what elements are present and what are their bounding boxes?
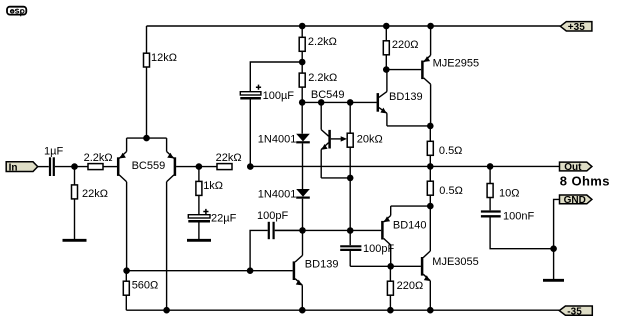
node 20k top junction (347, 99, 354, 106)
node feedback 1k junction (196, 163, 203, 170)
tag GND (560, 195, 592, 206)
ground 22uF (187, 239, 211, 242)
svg-text:BD139: BD139 (389, 91, 423, 103)
svg-text:BC559: BC559 (132, 160, 166, 172)
svg-text:0.5Ω: 0.5Ω (439, 185, 463, 197)
svg-text:0.5Ω: 0.5Ω (439, 145, 463, 157)
svg-text:-35: -35 (567, 306, 582, 317)
wire 560 bottom lead (125, 295, 127, 310)
node MJE2955 emitter rail (427, 23, 434, 30)
node BC549 collector junction (318, 99, 325, 106)
svg-text:MJE3055: MJE3055 (432, 256, 478, 268)
wire 22uF to ground (198, 222, 200, 239)
node VAS top left (299, 99, 306, 106)
svg-text:20kΩ: 20kΩ (357, 133, 383, 145)
node 220 upper rail (383, 23, 390, 30)
wire 100pF first right (275, 229, 303, 231)
svg-text:560Ω: 560Ω (132, 280, 159, 292)
resistor 12k (144, 53, 150, 67)
wire 2.2k first top lead (301, 26, 303, 37)
transistor Q8 MJE3055 (422, 206, 430, 310)
svg-text:220Ω: 220Ω (392, 39, 419, 51)
wire output line (250, 165, 559, 167)
wire 220 upper top lead (385, 26, 387, 41)
node zobel junction (487, 163, 494, 170)
diode D1 1N4001 (296, 134, 310, 143)
node driver output junction (427, 123, 434, 130)
wire Q2 base to feedback node (176, 166, 217, 168)
wire 0.5 upper bottom (429, 155, 431, 166)
svg-text:100µF: 100µF (263, 90, 295, 102)
svg-text:100pF: 100pF (257, 210, 288, 222)
wire +35 rail (147, 25, 561, 27)
wire 1uF to base 2.2k (55, 166, 88, 168)
transistor Q5 MJE2955 (422, 26, 430, 126)
resistor 22k input (72, 185, 78, 199)
svg-text:BD139: BD139 (305, 259, 339, 271)
node VAS emitter rail (299, 307, 306, 314)
transistor Q1 BC559 left (118, 138, 126, 271)
wire ground stub (553, 249, 555, 279)
capacitor 100nF (481, 212, 501, 217)
node 0.5 lower MJE3055 junction (427, 203, 434, 210)
resistor 22k feedback (217, 164, 232, 170)
resistor 2.2k second (299, 73, 305, 87)
svg-text:+35: +35 (568, 22, 585, 33)
transistor Q3 BC549 (321, 102, 350, 177)
wire MJE2955 base (386, 69, 421, 71)
node 20k emitter junction (347, 175, 354, 182)
wire 20k top lead (349, 102, 351, 133)
svg-text:MJE2955: MJE2955 (433, 57, 479, 69)
wire VAS base line (127, 270, 293, 272)
wire 20k bottom lead (349, 147, 351, 230)
wire emitter bus (127, 137, 167, 139)
resistor 220 lower (387, 281, 393, 295)
svg-text:Out: Out (564, 162, 582, 173)
wire 100pF first left (250, 230, 268, 270)
transistor Q6 BD140 (382, 206, 430, 266)
transistor Q2 BC559 right (167, 138, 175, 310)
svg-text:22kΩ: 22kΩ (82, 188, 108, 200)
svg-text:10Ω: 10Ω (499, 188, 519, 200)
svg-text:BC549: BC549 (311, 89, 345, 101)
svg-text:22µF: 22µF (211, 212, 237, 224)
node Q2 collector rail (163, 307, 170, 314)
wire 2.2k second bottom (301, 87, 303, 134)
esp logo (7, 7, 26, 17)
capacitor 100pF first (269, 222, 274, 239)
resistor 0.5 lower (427, 181, 433, 195)
wire VAS top line (302, 101, 376, 103)
svg-text:1kΩ: 1kΩ (203, 180, 223, 192)
resistor 220 upper (383, 41, 389, 55)
wire 560 top lead (125, 271, 127, 282)
wire GND tag to ground node (554, 199, 560, 248)
wire 10R to 100nF (489, 198, 491, 211)
capacitor 1uF (50, 157, 54, 176)
resistor 0.5 upper (427, 141, 433, 155)
node decoupling junction (299, 59, 306, 66)
wire 22k input top lead (74, 167, 76, 185)
node BD140 base junction (347, 227, 354, 234)
wire 220 lower top lead (389, 266, 391, 281)
tag +35 (560, 22, 592, 33)
tag In (6, 162, 38, 174)
wire 100uF to feedback node (249, 99, 251, 166)
transistor Q4 BD139 upper (378, 70, 431, 126)
wire 220 upper bottom (385, 55, 387, 70)
node input junction (71, 163, 78, 170)
svg-text:BD140: BD140 (393, 219, 427, 231)
svg-text:100pF: 100pF (363, 243, 394, 255)
wire -35 rail (126, 309, 559, 311)
wire trimpot wiper arrow (331, 136, 347, 141)
resistor 1k (196, 181, 202, 195)
wire 0.5 upper top lead (429, 126, 431, 141)
svg-text:2.2kΩ: 2.2kΩ (308, 72, 337, 84)
svg-text:100nF: 100nF (503, 210, 534, 222)
wire 0.5 lower top lead (429, 166, 431, 181)
node tail junction (143, 135, 150, 142)
wire 2.2k to Q1 base (103, 166, 117, 168)
capacitor 100pF second (340, 246, 361, 250)
node output 0.5 junction (427, 163, 434, 170)
node MJE2955 base junction (383, 66, 390, 73)
resistor 560 (123, 281, 129, 295)
svg-text:2.2kΩ: 2.2kΩ (84, 152, 113, 164)
svg-text:1µF: 1µF (44, 145, 63, 157)
svg-text:In: In (9, 162, 18, 173)
wire BD140 base line (275, 229, 381, 231)
node diode bottom junction (299, 227, 306, 234)
wire 1k top lead (198, 167, 200, 182)
wire 100pF second top lead (349, 231, 351, 246)
svg-text:GND: GND (564, 195, 586, 206)
wire 10R top lead (489, 166, 491, 183)
svg-text:22kΩ: 22kΩ (216, 152, 242, 164)
wire 12k top lead (146, 26, 148, 53)
wire D1 to D2 (302, 143, 304, 189)
node VAS base 100pF junction (247, 267, 254, 274)
wire 100pF second bottom lead (349, 251, 351, 266)
wire In to 1uF (38, 166, 49, 168)
node MJE3055 emitter rail (427, 307, 434, 314)
node 22k 100uF junction (247, 163, 254, 170)
wire 100nF to ground node (490, 218, 553, 249)
wire decoupling to 100uF (250, 62, 302, 92)
wire 220 lower bottom lead (389, 295, 391, 310)
resistor 20k (347, 133, 353, 147)
svg-text:1N4001: 1N4001 (258, 134, 297, 146)
svg-text:220Ω: 220Ω (397, 280, 424, 292)
node rail 2.2k junction (299, 23, 306, 30)
capacitor 22uF (188, 209, 210, 221)
ground output (543, 279, 564, 282)
node ground junction (550, 245, 557, 252)
ground input (63, 239, 87, 242)
tag -35 (559, 306, 592, 317)
svg-text:8 Ohms: 8 Ohms (560, 174, 610, 189)
node 560 junction (123, 267, 130, 274)
tag Out (560, 162, 592, 173)
wire 0.5 lower bottom (429, 195, 431, 206)
node BD140 collector junction (387, 263, 394, 270)
wire 1k to 22uF (198, 195, 200, 214)
wire 2.2k first bottom (301, 51, 303, 73)
transistor Q7 BD139 lower (294, 230, 303, 310)
resistor 2.2k first (299, 37, 305, 51)
wire 12k bottom to tail (146, 67, 148, 138)
svg-text:12kΩ: 12kΩ (151, 52, 177, 64)
resistor 2.2k input (88, 164, 103, 170)
wire 22k to ground (74, 199, 76, 239)
wire MJE3055 base line (350, 265, 421, 267)
diode D2 1N4001 (296, 189, 310, 198)
resistor 10R (487, 184, 493, 198)
capacitor 100uF (240, 85, 261, 99)
svg-text:2.2kΩ: 2.2kΩ (308, 36, 337, 48)
wire D2 to VAS collector node (302, 199, 304, 231)
svg-text:1N4001: 1N4001 (258, 188, 297, 200)
node 220 lower rail (387, 307, 394, 314)
